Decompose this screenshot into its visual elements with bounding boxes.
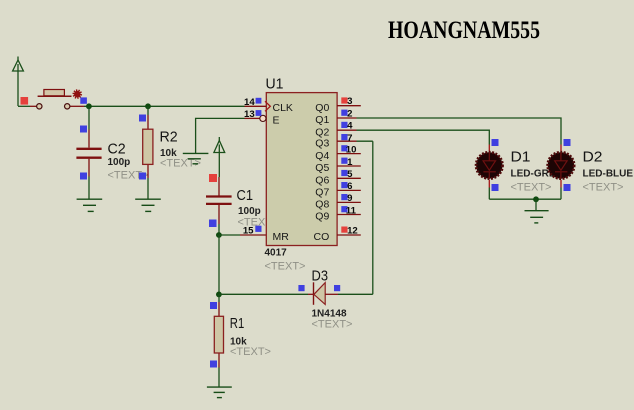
resistor R1 pins xyxy=(218,302,220,368)
pin Q8 stub 9 xyxy=(337,201,361,203)
capacitor C2 plates xyxy=(76,149,101,158)
wire C1 to J3 xyxy=(218,224,220,235)
pin CLK stub 14 xyxy=(245,105,267,107)
svg-text:4017: 4017 xyxy=(265,248,288,259)
diode D3 xyxy=(314,282,326,305)
svg-text:CLK: CLK xyxy=(273,102,293,114)
marker blue pin 10 xyxy=(341,145,347,151)
pin Q9 stub 11 xyxy=(337,214,361,216)
wire D3 to Q3 riser xyxy=(325,293,338,295)
wire J4 to R1 xyxy=(218,294,220,302)
svg-text:MR: MR xyxy=(273,231,290,243)
resistor R1 body xyxy=(214,316,223,353)
svg-text:12: 12 xyxy=(347,226,358,237)
IC U1 body xyxy=(266,93,337,246)
svg-text:Q7: Q7 xyxy=(315,187,329,199)
svg-text:7: 7 xyxy=(347,133,352,144)
button SW pins xyxy=(30,105,84,107)
pin CLK clock symbol xyxy=(265,101,270,111)
marker blue D2 bottom xyxy=(564,184,571,191)
svg-text:100p: 100p xyxy=(238,206,261,217)
svg-text:13: 13 xyxy=(244,109,255,120)
pin Q3 stub 7 xyxy=(337,140,356,142)
marker blue D1 bottom xyxy=(492,184,499,191)
marker blue pin 11 xyxy=(341,206,347,212)
power symbol P1 xyxy=(13,57,24,107)
svg-text:6: 6 xyxy=(347,181,352,192)
marker blue pin 1 xyxy=(341,158,347,164)
led D1 body xyxy=(476,152,502,179)
led D2 body xyxy=(548,152,574,179)
pin Q5 stub 1 xyxy=(337,165,361,167)
wire J3 to MR xyxy=(219,234,240,236)
svg-text:Q1: Q1 xyxy=(315,114,329,126)
pin E stub 13 xyxy=(245,117,260,119)
marker blue pin 4 xyxy=(341,122,347,128)
marker blue pin 14 xyxy=(256,98,262,104)
wire J3 to J4 xyxy=(218,235,220,294)
marker blue R2 top xyxy=(139,115,146,122)
wire C2 to ground xyxy=(88,177,90,200)
capacitor C1 pins xyxy=(218,177,220,224)
marker blue pin 6 xyxy=(341,182,347,188)
marker blue D2 top xyxy=(564,139,571,146)
ground G2 xyxy=(135,199,161,211)
pin CO stub 12 xyxy=(337,234,361,236)
pin E bubble xyxy=(260,115,266,121)
resistor R2 pins xyxy=(147,115,149,178)
wire R2 to ground xyxy=(147,178,149,199)
led D1 pins xyxy=(488,145,490,188)
svg-text:15: 15 xyxy=(243,226,254,237)
node junction J5 xyxy=(533,196,539,202)
svg-text:14: 14 xyxy=(244,97,255,108)
marker blue D3 right xyxy=(334,285,340,291)
svg-text:D1: D1 xyxy=(511,148,531,165)
marker red square at button xyxy=(21,97,29,105)
capacitor C2 pins xyxy=(88,130,90,177)
svg-text:R1: R1 xyxy=(230,315,245,332)
capacitor C1 plates xyxy=(206,197,232,204)
pin Q6 stub 5 xyxy=(337,177,361,179)
wire D1 to rail xyxy=(488,188,490,200)
svg-text:<TEXT>: <TEXT> xyxy=(511,182,552,194)
wire J2 to R2 xyxy=(147,106,149,115)
marker blue R1 bottom xyxy=(210,361,217,368)
svg-text:D2: D2 xyxy=(583,148,603,165)
wire J5 to ground xyxy=(535,199,537,211)
svg-text:<TEXT>: <TEXT> xyxy=(230,346,271,358)
svg-text:100p: 100p xyxy=(108,157,131,168)
svg-text:Q5: Q5 xyxy=(315,162,329,174)
node junction J3 xyxy=(216,232,222,238)
marker blue D3 left xyxy=(298,285,304,291)
marker blue D1 top xyxy=(492,139,499,146)
resistor R2 body xyxy=(143,129,153,164)
svg-text:Q3: Q3 xyxy=(315,138,329,150)
pin Q7 stub 6 xyxy=(337,189,361,191)
marker blue R2 bottom xyxy=(139,173,146,180)
button SW actuator xyxy=(44,90,65,96)
svg-text:Q2: Q2 xyxy=(315,126,329,138)
svg-text:Q4: Q4 xyxy=(315,150,329,162)
svg-text:10: 10 xyxy=(346,144,357,155)
svg-text:Q9: Q9 xyxy=(315,211,329,223)
button SW contacts xyxy=(37,104,42,109)
svg-text:11: 11 xyxy=(346,205,357,216)
svg-text:<TEXT>: <TEXT> xyxy=(312,319,353,331)
wire D2 to rail xyxy=(560,188,562,200)
wire power to button xyxy=(18,105,30,107)
svg-text:<TEXT>: <TEXT> xyxy=(265,261,306,273)
svg-text:Q0: Q0 xyxy=(315,102,329,114)
marker blue pin 2 xyxy=(341,110,347,116)
svg-text:CO: CO xyxy=(314,231,330,243)
marker blue pin 7 xyxy=(341,134,347,140)
svg-text:C2: C2 xyxy=(108,140,126,157)
svg-text:R2: R2 xyxy=(160,129,178,146)
svg-text:D3: D3 xyxy=(312,268,329,285)
marker red C1 xyxy=(209,174,217,182)
svg-text:LED-BLUE: LED-BLUE xyxy=(583,169,634,180)
svg-text:3: 3 xyxy=(347,96,352,107)
ground G1 xyxy=(77,199,103,211)
svg-text:4: 4 xyxy=(347,121,353,132)
pin Q1 stub 2 xyxy=(337,117,356,119)
pin Q4 stub 10 xyxy=(337,153,361,155)
marker red star at button xyxy=(73,89,82,98)
pin Q0 stub 3 xyxy=(337,105,361,107)
svg-text:U1: U1 xyxy=(266,76,284,93)
svg-text:5: 5 xyxy=(347,169,353,180)
marker red pin 12 xyxy=(341,227,347,233)
svg-text:HOANGNAM555: HOANGNAM555 xyxy=(388,17,540,44)
marker blue R1 top xyxy=(210,302,217,309)
wire J1 to C2 xyxy=(88,106,90,129)
ground G3 xyxy=(183,153,209,163)
node junction J2 xyxy=(145,103,151,109)
wire R1 to ground xyxy=(218,368,220,388)
marker blue pin 15 xyxy=(255,226,261,232)
wire Q1 to D2 xyxy=(357,118,562,145)
wire E pin to ground xyxy=(196,118,245,153)
wire button to CLK xyxy=(84,105,245,107)
marker blue pin 9 xyxy=(341,194,347,200)
button SW lever bar xyxy=(38,95,72,97)
power symbol P2 xyxy=(214,137,225,177)
marker red pin 3 xyxy=(341,97,347,103)
marker blue pin 5 xyxy=(341,170,347,176)
wire J4 to D3 xyxy=(219,293,308,295)
ground G5 xyxy=(525,211,549,223)
svg-text:Q6: Q6 xyxy=(315,175,329,187)
svg-text:Q8: Q8 xyxy=(315,199,329,211)
svg-text:E: E xyxy=(273,115,280,127)
svg-text:<TEXT>: <TEXT> xyxy=(583,182,624,194)
wire Q2 to D1 xyxy=(357,130,490,144)
svg-text:C1: C1 xyxy=(237,187,254,204)
svg-text:2: 2 xyxy=(347,108,352,119)
pin Q2 stub 4 xyxy=(337,129,356,131)
marker blue square at button xyxy=(80,97,87,103)
svg-text:9: 9 xyxy=(347,193,352,204)
ground G4 xyxy=(207,387,232,398)
marker blue pin 13 xyxy=(256,110,262,116)
node junction J1 xyxy=(86,103,92,109)
marker blue C2 bottom xyxy=(80,173,87,180)
svg-text:1: 1 xyxy=(347,157,353,168)
wire LED rail xyxy=(489,198,561,200)
led D2 pins xyxy=(560,145,562,188)
marker blue C1 bottom xyxy=(209,220,217,228)
marker blue C2 top xyxy=(80,126,87,133)
node junction J4 xyxy=(216,292,222,298)
